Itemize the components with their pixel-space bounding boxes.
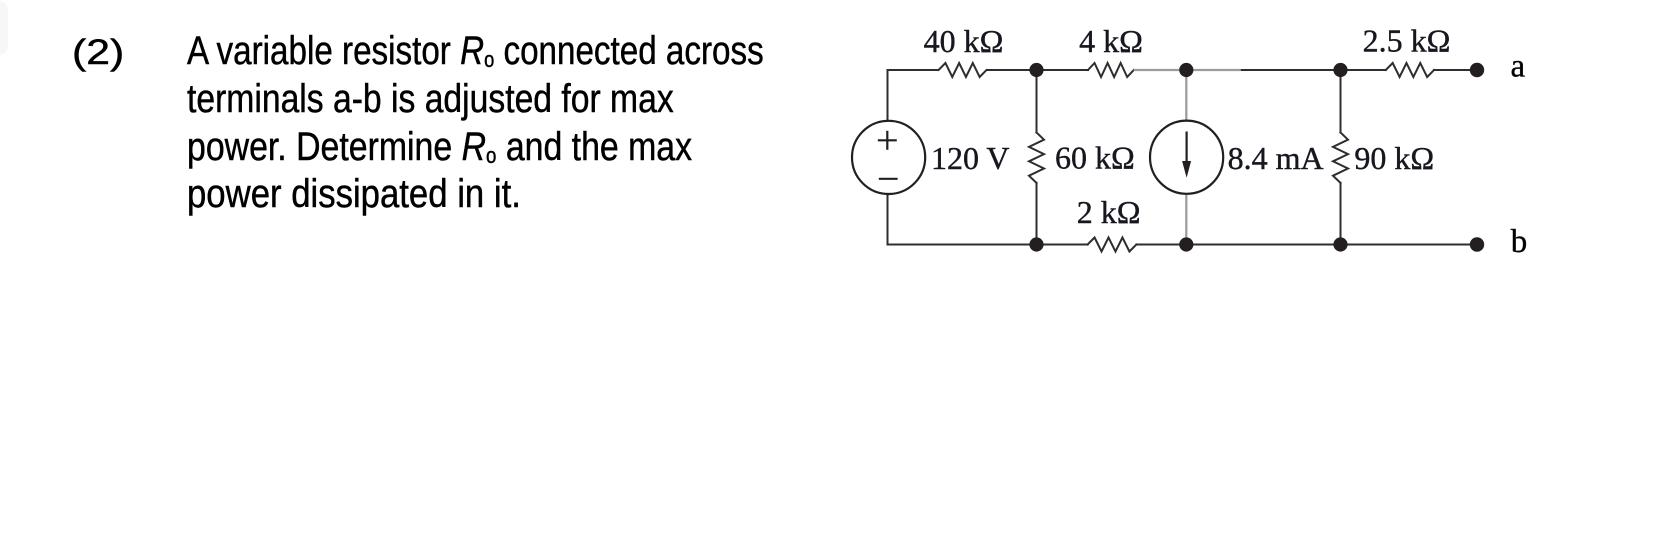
svg-text:b: b: [1511, 224, 1528, 260]
svg-text:8.4 mA: 8.4 mA: [1228, 140, 1324, 176]
svg-text:2.5 kΩ: 2.5 kΩ: [1363, 22, 1451, 58]
svg-text:4 kΩ: 4 kΩ: [1079, 23, 1143, 59]
svg-text:40 kΩ: 40 kΩ: [924, 23, 1004, 59]
svg-text:90 kΩ: 90 kΩ: [1354, 140, 1434, 176]
svg-text:120 V: 120 V: [931, 140, 1010, 176]
svg-text:2 kΩ: 2 kΩ: [1077, 194, 1141, 230]
svg-text:a: a: [1511, 48, 1526, 84]
svg-text:60 kΩ: 60 kΩ: [1055, 140, 1135, 176]
